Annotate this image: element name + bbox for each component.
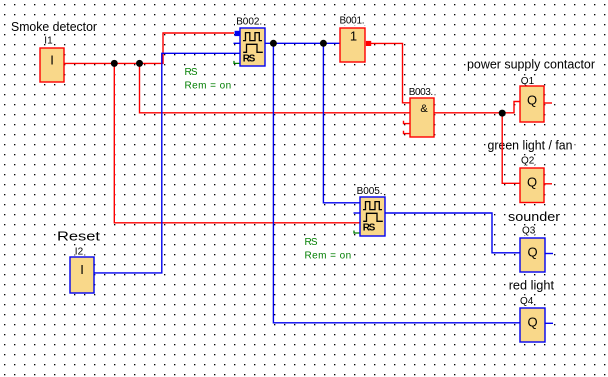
svg-text:RS: RS — [243, 54, 256, 65]
svg-text:&: & — [420, 103, 428, 115]
svg-text:Q2: Q2 — [521, 155, 535, 166]
svg-text:Q: Q — [527, 175, 537, 190]
svg-text:I: I — [50, 52, 54, 67]
param text Rem = on (B005) — [304, 251, 354, 262]
stub Q1 output open — [545, 102, 553, 104]
wire branch node A down to B005 R input — [114, 63, 360, 222]
wire branch node E down to B005 Trg input — [323, 43, 360, 203]
stub B003 input 3 open — [404, 121, 411, 124]
svg-text:power supply contactor: power supply contactor — [467, 57, 596, 72]
wire I2 output to B002 R input — [94, 53, 240, 273]
wire B003 output to Q1 input — [434, 102, 520, 113]
output block Q3 — [520, 238, 545, 272]
output block Q1 — [520, 86, 544, 122]
pin marker B001 output (red square) — [366, 41, 371, 46]
svg-text:I: I — [80, 262, 84, 277]
svg-text:Q3: Q3 — [522, 226, 536, 237]
wire I1 output to B002 S input — [64, 33, 234, 63]
comment text green light / fan — [486, 137, 575, 152]
wire B005 output to Q3 input — [385, 213, 520, 253]
svg-text:RS: RS — [363, 223, 376, 234]
svg-text:Reset: Reset — [57, 228, 100, 243]
label Q3 — [522, 226, 536, 237]
wire branch node C down to Q2 input — [502, 113, 520, 184]
OR block B001 — [340, 28, 365, 62]
stub B005 Par green — [354, 231, 361, 234]
label Q4 — [519, 296, 534, 307]
svg-text:Q: Q — [527, 315, 537, 330]
stub B002 Par green — [234, 61, 240, 64]
wire B001 output to B003 input 1 — [371, 43, 410, 102]
comment text power supply contactor — [466, 57, 597, 72]
label B002. — [235, 17, 264, 28]
svg-text:Q4: Q4 — [520, 296, 534, 307]
stub B002 S2 input open — [234, 42, 241, 44]
junction node E on B002 output — [320, 40, 327, 47]
param text Rem = on (B002) — [184, 81, 234, 92]
AND block B003 — [410, 98, 434, 137]
svg-text:red light: red light — [509, 278, 555, 293]
comment text red light — [507, 278, 556, 293]
svg-text:B002.: B002. — [236, 17, 262, 28]
svg-text:green light / fan: green light / fan — [488, 137, 573, 152]
comment text Smoke detector — [10, 19, 99, 34]
label B003. — [408, 87, 435, 98]
pin marker B002 S input (dark square) — [235, 31, 241, 36]
input block I2 — [70, 257, 94, 293]
svg-text:B001.: B001. — [340, 16, 365, 27]
svg-text:Rem = on: Rem = on — [305, 251, 352, 262]
wire B002 output to B001 input — [265, 42, 340, 44]
wire branch node D down to Q4 input — [273, 43, 520, 323]
param text RS (B002) — [184, 67, 200, 78]
svg-text:Rem = on: Rem = on — [185, 81, 232, 92]
svg-text:Q: Q — [527, 93, 537, 108]
pulse relay block B002 — [240, 28, 265, 66]
pulse relay block B005 — [360, 197, 385, 236]
label I1 — [44, 35, 56, 46]
svg-text:1: 1 — [350, 29, 357, 44]
junction node C on B003 output — [499, 110, 506, 117]
label Q2 — [520, 155, 535, 166]
stub B003 input 4 open — [404, 131, 411, 134]
junction node A on I1 wire — [111, 60, 118, 67]
label B001. — [338, 16, 366, 27]
svg-text:RS: RS — [185, 67, 198, 78]
label B005. — [355, 186, 384, 197]
label Q1 — [520, 76, 537, 87]
svg-text:sounder: sounder — [508, 209, 561, 224]
svg-text:I2: I2 — [75, 246, 84, 257]
wire branch node B down to B003 input 2 — [140, 63, 411, 112]
svg-text:Q: Q — [527, 245, 537, 260]
svg-text:B005.: B005. — [357, 186, 383, 197]
param text RS (B005) — [304, 237, 320, 248]
stub Q2 output open — [545, 183, 553, 185]
stub Q3 output open — [546, 253, 554, 255]
output block Q2 — [520, 168, 544, 203]
svg-text:I1: I1 — [44, 35, 53, 46]
junction node D on B002 output — [270, 40, 277, 47]
comment text Reset — [56, 228, 102, 243]
stub B005 S input open — [354, 212, 361, 214]
svg-text:B003.: B003. — [409, 87, 433, 98]
svg-text:RS: RS — [305, 237, 318, 248]
comment text sounder — [507, 209, 562, 224]
svg-text:Smoke detector: Smoke detector — [11, 19, 98, 34]
junction node B on I1 wire — [136, 60, 143, 67]
label I2 — [74, 246, 87, 257]
input block I1 — [40, 48, 64, 82]
output block Q4 — [520, 308, 545, 342]
stub Q4 output open — [546, 322, 554, 324]
